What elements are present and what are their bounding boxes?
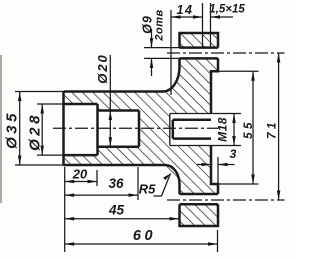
flange rim right face / step / web face bbox=[211, 58, 218, 113]
main axis centerline bbox=[53, 127, 219, 129]
svg-text:1,5×15: 1,5×15 bbox=[209, 4, 245, 16]
svg-text:Ø20: Ø20 bbox=[95, 53, 110, 84]
dim d28 bbox=[37, 103, 64, 105]
svg-text:R5: R5 bbox=[139, 182, 156, 197]
top bolt hole edges bbox=[180, 46, 219, 49]
dim d35 bbox=[15, 91, 64, 93]
flange bottom right corner bbox=[180, 204, 219, 226]
svg-text:2отв: 2отв bbox=[154, 9, 166, 41]
R5 leader bbox=[154, 174, 171, 197]
bore d28 edges bbox=[64, 103, 98, 106]
dim 60 bbox=[65, 243, 218, 245]
scan artifacts bbox=[0, 55, 2, 203]
bottom bolt hole edges bbox=[180, 193, 219, 196]
dim 45 bbox=[65, 218, 179, 220]
top bolt hole centerline bbox=[167, 52, 285, 54]
svg-text:71: 71 bbox=[267, 119, 279, 139]
flange left face above top bolt hole bbox=[180, 33, 219, 48]
svg-text:3: 3 bbox=[230, 147, 237, 161]
M18 thread: thick minor lines bbox=[173, 119, 211, 122]
dim 36 bbox=[65, 194, 138, 196]
bottom bolt hole centerline bbox=[167, 199, 285, 201]
dim 20 bbox=[65, 181, 97, 183]
dim 14 bbox=[170, 10, 172, 95]
svg-text:60: 60 bbox=[133, 228, 156, 244]
dim 3 bbox=[217, 157, 219, 184]
svg-text:M18: M18 bbox=[216, 117, 230, 142]
dim 55 bbox=[218, 70, 259, 72]
svg-text:36: 36 bbox=[108, 176, 124, 191]
section hatching (part material) bbox=[64, 33, 219, 226]
svg-text:Ø9: Ø9 bbox=[141, 15, 155, 34]
dim d20 bbox=[109, 55, 111, 147]
dim 1,5x15 bbox=[211, 16, 234, 18]
M18 thread: thin major lines bbox=[170, 113, 211, 115]
bore d20 edges bbox=[98, 109, 140, 112]
outer silhouette: hub top edge + fillet bbox=[64, 58, 180, 91]
svg-text:55: 55 bbox=[243, 119, 255, 139]
dim 71 bbox=[278, 53, 280, 200]
dim d9 2otv bbox=[144, 47, 180, 49]
svg-text:20: 20 bbox=[72, 166, 88, 181]
left end face bbox=[62, 92, 65, 166]
svg-text:14: 14 bbox=[177, 3, 194, 17]
bottom extension lines bbox=[64, 167, 66, 252]
dim M18 bbox=[211, 113, 241, 115]
flange left face below bottom hole + bottom fillet + hub bottom edge bbox=[64, 165, 180, 194]
svg-text:Ø28: Ø28 bbox=[27, 112, 44, 151]
svg-text:45: 45 bbox=[108, 203, 125, 218]
svg-text:Ø35: Ø35 bbox=[4, 110, 21, 149]
